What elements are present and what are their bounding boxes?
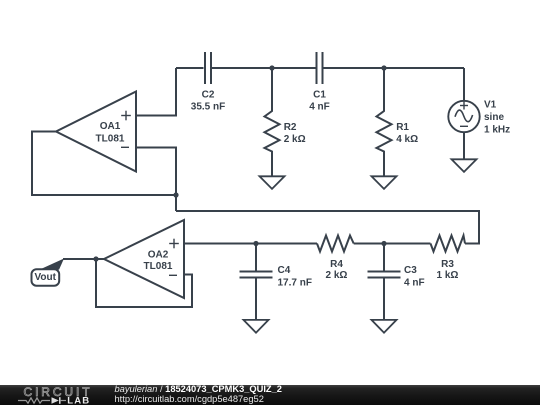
svg-text:1 kHz: 1 kHz [484,125,510,136]
voltage source V1 [448,68,510,159]
label Vout [32,269,60,285]
resistor R4 [317,236,354,282]
wire top rail segment 2 [212,67,317,69]
capacitor C3 [368,244,425,321]
svg-text:OA1: OA1 [100,121,121,132]
svg-text:C2: C2 [202,90,215,101]
ground R2 [260,176,285,189]
wire OA2 -in feedback [96,259,192,307]
wire top rail segment 3 [324,67,465,69]
svg-text:LAB: LAB [67,396,90,405]
node Vout [93,256,98,261]
svg-text:R4: R4 [330,259,343,270]
svg-text:Vout: Vout [34,272,56,283]
resistor R1 [377,68,419,176]
ground C4 [244,320,269,333]
flag Vout [42,259,64,270]
resistor R3 [431,236,466,282]
logo diode [52,397,59,404]
svg-text:C4: C4 [278,265,291,276]
capacitor C4 [240,244,312,321]
ground C3 [372,320,397,333]
svg-text:4 kΩ: 4 kΩ [396,134,418,145]
svg-text:C3: C3 [404,265,417,276]
svg-text:sine: sine [484,112,504,123]
svg-text:V1: V1 [484,99,497,110]
wire feedback OA1 -in to output [32,132,176,196]
resistor R2 [265,68,306,176]
svg-text:R3: R3 [441,259,454,270]
svg-text:TL081: TL081 [96,134,125,145]
node C3 [381,241,386,246]
svg-text:TL081: TL081 [144,261,173,272]
svg-text:2 kΩ: 2 kΩ [284,134,306,145]
node C4 [253,241,258,246]
wire stage2 rail segment 2 [354,243,431,245]
svg-text:OA2: OA2 [148,249,169,260]
svg-text:bayulerian / 18524073_CPMK3_QU: bayulerian / 18524073_CPMK3_QUIZ_2 [115,384,282,394]
svg-text:35.5 nF: 35.5 nF [191,101,225,112]
svg-text:2 kΩ: 2 kΩ [326,270,348,281]
svg-text:4 nF: 4 nF [404,277,425,288]
op-amp OA2 [104,220,184,298]
svg-text:R1: R1 [396,122,409,133]
op-amp OA1 [56,92,136,172]
capacitor C1 [309,52,330,112]
node top R1 [381,65,386,70]
capacitor C2 [191,52,225,112]
wire OA1 +in to top rail [136,68,176,116]
wire OA2 +in / stage2 rail [184,243,317,245]
svg-text:17.7 nF: 17.7 nF [278,277,312,288]
node top R2 [269,65,274,70]
wire OA1 -in down to node A [136,148,176,212]
wire output node to OA2 [63,258,104,260]
logo resistor zigzag [18,398,50,403]
svg-text:4 nF: 4 nF [309,101,330,112]
wire node A to R3 [176,211,479,244]
wire top rail segment 1 [176,67,204,69]
node A [173,192,178,197]
svg-text:R2: R2 [284,122,297,133]
svg-text:http://circuitlab.com/cgdp5e48: http://circuitlab.com/cgdp5e487eg52 [115,394,264,404]
svg-text:C1: C1 [313,90,326,101]
ground R1 [372,176,397,189]
ground V1 [452,159,477,172]
svg-text:1 kΩ: 1 kΩ [437,270,459,281]
